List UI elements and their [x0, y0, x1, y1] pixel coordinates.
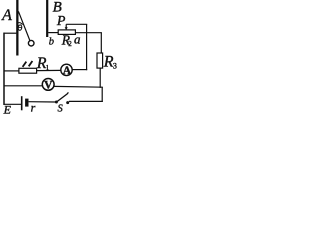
- pendulum string: [18, 11, 30, 40]
- wire left rail to R1: [4, 70, 20, 72]
- left rail wire: [3, 33, 5, 105]
- wire R3 bottom lead: [99, 68, 101, 88]
- battery long plate: [21, 96, 23, 110]
- rheostat R1 arrow marks: [23, 62, 27, 67]
- wire R1 to ammeter: [37, 69, 61, 71]
- svg-text:S: S: [58, 104, 64, 115]
- ammeter A1 circle: [61, 64, 72, 75]
- label θ: [18, 25, 22, 31]
- switch contact dot right: [66, 101, 69, 104]
- svg-text:r: r: [31, 100, 36, 114]
- resistor R3 box: [97, 53, 103, 68]
- wire plate B to R2: [48, 32, 58, 34]
- angle arc: [18, 23, 22, 25]
- battery short plate: [25, 99, 28, 107]
- potentiometer R2 box: [58, 30, 75, 35]
- right vertical wire: [101, 87, 103, 102]
- svg-text:A: A: [63, 65, 72, 77]
- svg-text:a: a: [74, 31, 81, 46]
- plate A: [16, 0, 18, 56]
- svg-text:P: P: [56, 14, 66, 29]
- wire R3 top lead: [100, 33, 102, 53]
- wire ammeter to junction: [72, 69, 87, 71]
- wire voltmeter to right corner: [54, 85, 103, 88]
- svg-text:3: 3: [113, 61, 117, 70]
- wire junction vertical: [86, 24, 88, 70]
- switch blade: [57, 92, 69, 102]
- slider arrow of R2: [65, 24, 67, 27]
- wire a to R3: [75, 32, 102, 34]
- wire battery to switch: [29, 101, 56, 103]
- svg-text:V: V: [44, 80, 53, 92]
- svg-text:A: A: [1, 7, 12, 24]
- wire left rail to voltmeter: [4, 85, 43, 87]
- wire left rail to plate A: [4, 32, 17, 34]
- wire bottom left to battery: [4, 103, 22, 105]
- switch contact dot left: [55, 101, 58, 104]
- svg-text:2: 2: [68, 40, 72, 48]
- svg-text:b: b: [49, 36, 54, 47]
- svg-text:E: E: [3, 103, 12, 115]
- wire slider P to junction: [66, 23, 87, 25]
- wire switch to right vertical: [69, 100, 103, 102]
- rheostat R1 box: [19, 68, 37, 73]
- plate B: [46, 0, 48, 37]
- voltmeter V circle: [42, 79, 54, 91]
- pendulum ball: [28, 40, 34, 46]
